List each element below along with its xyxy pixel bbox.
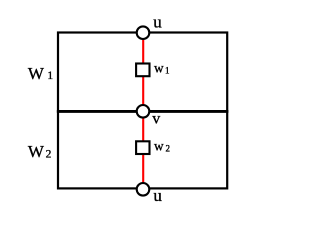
svg-text:W: W	[28, 142, 45, 161]
svg-text:W: W	[28, 64, 45, 83]
node u (top)	[137, 26, 150, 39]
svg-text:w: w	[154, 61, 164, 76]
svg-text:2: 2	[166, 143, 171, 153]
svg-text:2: 2	[46, 149, 52, 161]
svg-text:1: 1	[165, 66, 170, 76]
rectangle loop W2 (lower)	[58, 111, 227, 188]
red wire u-v-u	[142, 33, 144, 190]
shared middle wire	[57, 110, 228, 113]
rectangle loop W1 (upper)	[58, 33, 227, 112]
svg-text:v: v	[152, 111, 160, 128]
svg-text:u: u	[153, 13, 162, 32]
node v	[137, 105, 150, 118]
svg-text:w: w	[154, 139, 164, 154]
edge-box w2	[136, 141, 149, 154]
node u (bottom)	[137, 183, 150, 196]
edge-box w1	[136, 64, 149, 77]
svg-text:u: u	[153, 186, 162, 205]
svg-text:1: 1	[47, 70, 53, 82]
